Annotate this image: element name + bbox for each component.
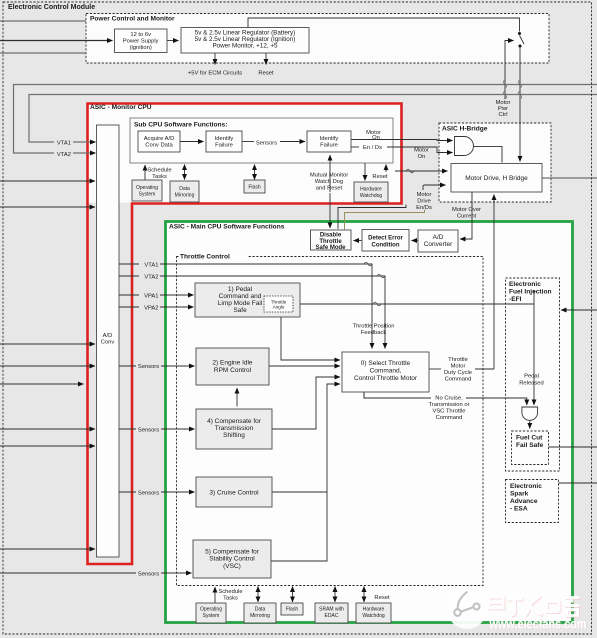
svg-text:Identify: Identify: [215, 136, 234, 142]
svg-text:Converter: Converter: [424, 241, 453, 248]
svg-text:Flash: Flash: [286, 607, 298, 613]
svg-text:Sub CPU Software Functions:: Sub CPU Software Functions:: [134, 122, 227, 129]
svg-text:Sensors: Sensors: [138, 491, 159, 497]
svg-text:Failure: Failure: [320, 143, 338, 149]
svg-text:12 to 6v: 12 to 6v: [130, 32, 151, 38]
svg-text:Fuel Injection: Fuel Injection: [509, 289, 552, 296]
svg-text:Command and: Command and: [219, 293, 262, 300]
svg-text:Duty Cycle: Duty Cycle: [444, 370, 472, 376]
svg-text:On: On: [372, 135, 380, 141]
svg-text:Motor Over: Motor Over: [452, 207, 481, 213]
svg-text:VTA1: VTA1: [57, 141, 71, 147]
svg-text:Data: Data: [255, 607, 266, 613]
svg-text:EDAC: EDAC: [325, 613, 339, 619]
svg-text:Motor: Motor: [417, 192, 432, 198]
svg-text:System: System: [139, 192, 156, 198]
svg-text:Watchdog: Watchdog: [362, 613, 385, 619]
svg-text:Transmission or: Transmission or: [428, 402, 469, 408]
svg-text:Spark: Spark: [510, 491, 529, 498]
svg-text:VSC Throttle: VSC Throttle: [432, 409, 465, 415]
svg-text:Reset: Reset: [258, 71, 274, 77]
svg-text:Mutual Monitor: Mutual Monitor: [310, 173, 348, 179]
svg-text:Current: Current: [457, 214, 477, 220]
svg-text:Sensors: Sensors: [256, 141, 277, 147]
svg-text:Command: Command: [436, 415, 463, 421]
svg-text:Conv: Conv: [101, 340, 115, 346]
svg-text:System: System: [203, 613, 220, 619]
svg-text:Condition: Condition: [372, 243, 400, 249]
svg-text:Hardware: Hardware: [363, 607, 385, 613]
svg-text:Conv Data: Conv Data: [145, 143, 173, 149]
svg-text:+5V for ECM Circuits: +5V for ECM Circuits: [188, 71, 242, 77]
svg-text:4) Compensate for: 4) Compensate for: [207, 418, 262, 425]
svg-text:Throttle Control: Throttle Control: [180, 254, 230, 261]
svg-text:Operating: Operating: [136, 185, 158, 191]
svg-text:Disable: Disable: [320, 233, 342, 239]
svg-text:VPA1: VPA1: [144, 294, 158, 300]
svg-text:1) Pedal: 1) Pedal: [228, 286, 253, 293]
svg-text:Sensors: Sensors: [138, 572, 159, 578]
svg-text:Acquire A/D: Acquire A/D: [144, 136, 175, 142]
svg-text:Identify: Identify: [320, 136, 339, 142]
svg-text:Power Supply: Power Supply: [123, 39, 159, 45]
svg-text:Released: Released: [519, 381, 544, 387]
svg-text:Mirroring: Mirroring: [175, 193, 195, 199]
svg-text:Motor Drive, H Bridge: Motor Drive, H Bridge: [465, 175, 528, 182]
svg-text:ASIC - Main CPU Software Funct: ASIC - Main CPU Software Functions: [169, 224, 285, 231]
svg-text:ASIC - Monitor CPU: ASIC - Monitor CPU: [90, 104, 152, 111]
svg-text:Angle: Angle: [273, 305, 285, 310]
svg-text:SRAM with: SRAM with: [319, 607, 344, 613]
svg-text:Motor: Motor: [414, 148, 429, 154]
svg-text:Power Control and Monitor: Power Control and Monitor: [90, 16, 175, 23]
svg-text:(ignition): (ignition): [130, 45, 152, 51]
svg-text:Limp Mode Fail: Limp Mode Fail: [218, 300, 263, 307]
svg-text:ASIC H-Bridge: ASIC H-Bridge: [442, 126, 488, 133]
svg-text:Safe Mode: Safe Mode: [315, 245, 346, 251]
svg-text:Watchdog: Watchdog: [360, 193, 383, 199]
svg-text:Safe: Safe: [233, 307, 247, 314]
svg-text:Command,: Command,: [370, 368, 402, 375]
svg-text:A/D: A/D: [433, 234, 444, 241]
svg-text:RPM Control: RPM Control: [214, 367, 252, 374]
svg-text:Sensors: Sensors: [138, 364, 159, 370]
svg-text:Hardware: Hardware: [360, 187, 382, 193]
svg-text:A/D: A/D: [103, 333, 113, 339]
svg-text:Advance: Advance: [510, 498, 538, 505]
svg-text:0) Select Throttle: 0) Select Throttle: [361, 360, 411, 367]
svg-text:Watch Dog: Watch Dog: [315, 179, 343, 185]
svg-text:Shifting: Shifting: [223, 432, 245, 439]
svg-text:Throttle: Throttle: [448, 357, 468, 363]
svg-text:Stability Control: Stability Control: [209, 556, 255, 563]
svg-text:Schedule: Schedule: [218, 589, 242, 595]
svg-text:3) Cruise Control: 3) Cruise Control: [209, 490, 259, 497]
svg-text:On: On: [418, 154, 426, 160]
svg-text:Data: Data: [179, 186, 190, 192]
svg-text:Motor: Motor: [451, 364, 466, 370]
svg-text:and Reset: and Reset: [316, 186, 343, 192]
svg-text:Failure: Failure: [215, 143, 233, 149]
svg-text:Electronic Control Module: Electronic Control Module: [8, 4, 95, 11]
svg-text:No Cruise,: No Cruise,: [435, 396, 463, 402]
svg-text:Fuel Cut: Fuel Cut: [516, 435, 543, 442]
svg-text:Sensors: Sensors: [138, 428, 159, 434]
svg-text:Control Throttle Motor: Control Throttle Motor: [354, 375, 418, 382]
svg-text:En/Ds: En/Ds: [416, 205, 432, 211]
svg-text:Tasks: Tasks: [152, 174, 167, 180]
svg-text:Tasks: Tasks: [223, 596, 238, 602]
svg-text:Detect Error: Detect Error: [368, 236, 403, 242]
svg-text:Drive: Drive: [417, 199, 431, 205]
svg-text:Throttle Position: Throttle Position: [353, 324, 395, 330]
svg-text:Feedback: Feedback: [361, 330, 387, 336]
svg-text:www.elecfans.com: www.elecfans.com: [489, 617, 587, 632]
svg-text:Transmission: Transmission: [215, 425, 254, 432]
svg-text:VTA2: VTA2: [144, 275, 158, 281]
svg-text:Power Monitor, +12, +5: Power Monitor, +12, +5: [212, 43, 278, 50]
svg-text:VPA2: VPA2: [144, 306, 158, 312]
svg-text:Schedule: Schedule: [147, 168, 171, 174]
svg-text:VTA1: VTA1: [144, 263, 158, 269]
svg-text:Mirroring: Mirroring: [250, 613, 270, 619]
svg-text:VTA2: VTA2: [57, 152, 71, 158]
svg-text:Reset: Reset: [374, 595, 390, 601]
svg-text:Flash: Flash: [248, 185, 260, 191]
svg-text:Command: Command: [445, 377, 472, 383]
svg-text:Fail Safe: Fail Safe: [516, 442, 543, 449]
svg-text:- ESA: - ESA: [510, 506, 528, 513]
svg-text:(VSC): (VSC): [223, 563, 241, 570]
svg-text:2) Engine Idle: 2) Engine Idle: [212, 360, 252, 367]
svg-text:5) Compensate for: 5) Compensate for: [205, 549, 260, 556]
svg-text:Electronic: Electronic: [510, 483, 542, 490]
svg-text:Pedal: Pedal: [524, 374, 539, 380]
svg-text:-EFI: -EFI: [509, 296, 522, 303]
svg-text:Operating: Operating: [200, 607, 222, 613]
svg-text:Reset: Reset: [372, 174, 388, 180]
svg-text:Ctrl: Ctrl: [498, 112, 507, 118]
svg-text:En / Ds: En / Ds: [363, 145, 382, 151]
svg-text:Electronic: Electronic: [509, 281, 541, 288]
